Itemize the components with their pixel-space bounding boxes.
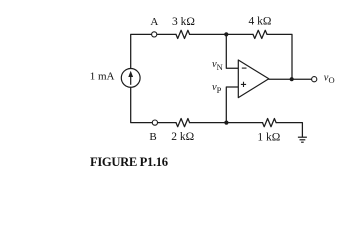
svg-text:1 mA: 1 mA xyxy=(90,71,115,83)
svg-text:FIGURE P1.16: FIGURE P1.16 xyxy=(90,155,168,169)
svg-text:B: B xyxy=(149,131,156,143)
ground xyxy=(298,137,307,142)
wire: node A to 3k resistor xyxy=(157,33,176,35)
pin: noninverting (+) xyxy=(241,82,246,87)
node A (open terminal) xyxy=(152,32,157,37)
terminal vO (open circle) xyxy=(312,77,317,82)
svg-text:vO: vO xyxy=(324,72,335,85)
svg-text:vP: vP xyxy=(212,82,222,95)
node B (open terminal) xyxy=(152,120,157,125)
resistor 2 kOhm xyxy=(176,119,190,127)
junction: output node xyxy=(290,77,294,81)
wire: 1k resistor right and down to ground xyxy=(276,123,302,137)
junction: noninverting bottom node xyxy=(224,121,228,125)
wire: op-amp output to terminal xyxy=(269,78,312,80)
svg-text:2 kΩ: 2 kΩ xyxy=(171,131,194,143)
resistor R 3 kOhm xyxy=(176,30,190,38)
pin: inverting (-) xyxy=(242,67,247,69)
current source I 1 mA xyxy=(121,69,140,88)
wire: current source bottom down and right to node B xyxy=(131,87,153,122)
wire: inverting input from top node down to op-amp xyxy=(226,34,238,68)
wire: noninverting input from op-amp left and down to bottom node xyxy=(226,87,238,123)
resistor Rf 4 kOhm xyxy=(253,30,267,38)
wire: 3k resistor to inverting node xyxy=(190,33,253,35)
wire: 2k resistor to bottom node and on to 1k resistor xyxy=(190,122,263,124)
resistor 1 kOhm xyxy=(263,119,277,127)
wire: 4k resistor right and down to output node xyxy=(267,34,292,79)
wire: node B to 2k resistor xyxy=(158,122,177,124)
svg-text:vN: vN xyxy=(212,59,223,72)
wire: top-left from current source up and right to node A xyxy=(131,34,152,68)
svg-text:A: A xyxy=(150,16,158,28)
svg-text:1 kΩ: 1 kΩ xyxy=(257,132,280,144)
junction: inverting summing node xyxy=(224,32,228,36)
op-amp U1 xyxy=(238,60,268,98)
svg-text:3 kΩ: 3 kΩ xyxy=(172,16,195,28)
svg-text:4 kΩ: 4 kΩ xyxy=(249,15,272,27)
